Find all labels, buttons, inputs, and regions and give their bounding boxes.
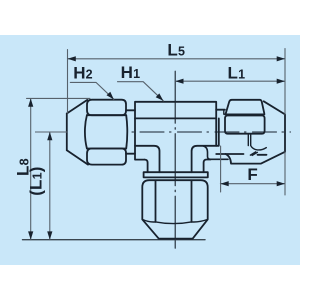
left nut bottom chamfer — [67, 150, 88, 164]
left nut band lines — [87, 115, 126, 148]
L1 arrows — [175, 79, 183, 84]
dimension F line — [220, 183, 285, 185]
neck left port — [126, 110, 135, 153]
baseline — [23, 239, 206, 241]
dimension (L1) line — [49, 132, 51, 240]
bottom nut chamfer arcs — [142, 219, 207, 223]
L5 extension left — [67, 50, 69, 114]
right port lower gland step — [203, 146, 228, 160]
arrowheads — [28, 56, 285, 240]
branch outer right — [204, 160, 211, 173]
H1 leader — [118, 82, 164, 101]
left nut middle band left edge — [85, 115, 87, 148]
H2 arrowhead — [107, 92, 114, 100]
left nut top band — [87, 100, 126, 116]
H2 leader — [70, 82, 114, 99]
bottom nut outline — [142, 180, 207, 239]
branch outer left — [145, 160, 148, 173]
H1 arrowhead — [156, 93, 164, 100]
dimension L5 line — [68, 58, 286, 60]
left nut middle band right edge — [126, 115, 127, 148]
right nut top face — [226, 100, 265, 114]
blue panel background — [0, 35, 300, 265]
svg-text:F: F — [247, 165, 258, 184]
right port neck top — [216, 109, 225, 111]
body outline — [135, 102, 216, 160]
body interior line bottom left — [135, 146, 160, 172]
body interior line bottom right — [192, 118, 219, 172]
F arrows — [220, 181, 228, 186]
vertical centerline — [174, 71, 176, 248]
(L1) arrows — [47, 132, 52, 140]
(L1) top extension — [36, 131, 67, 133]
bottom nut corner lines — [156, 181, 192, 222]
dimension L1 line — [175, 80, 285, 82]
right nut bottom face — [226, 152, 285, 164]
right nut chamfer top — [264, 101, 285, 114]
dimension L8 line — [30, 99, 32, 240]
right nut bottom edge line — [216, 153, 266, 156]
body interior line top — [135, 117, 216, 119]
right nut right face — [284, 114, 286, 151]
right nut middle band — [225, 116, 265, 134]
right nut band line — [225, 113, 265, 115]
horizontal centerline — [36, 131, 291, 133]
left nut occluding silhouette — [67, 100, 128, 165]
right nut ferrule detail — [224, 110, 258, 156]
left nut top chamfer — [67, 100, 88, 114]
L5/L1 extension right — [284, 49, 286, 115]
right nut bottom inner detail — [248, 134, 266, 150]
svg-text:(L1): (L1) — [27, 166, 46, 195]
F extension left — [221, 146, 285, 195]
left nut bottom band — [87, 149, 126, 165]
L8 arrows — [28, 99, 33, 107]
L8 top extension — [27, 97, 91, 99]
L5 arrows — [68, 56, 76, 61]
bottom washer — [144, 172, 208, 177]
left nut back edge — [66, 114, 68, 151]
